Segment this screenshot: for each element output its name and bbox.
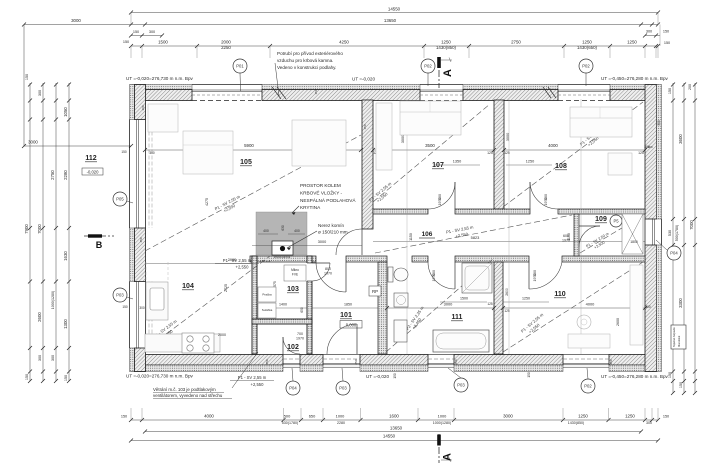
- svg-text:4250: 4250: [339, 40, 349, 45]
- svg-text:125: 125: [638, 151, 644, 155]
- svg-text:+TV + A: +TV + A: [260, 259, 271, 263]
- svg-text:500(1780): 500(1780): [675, 225, 679, 241]
- svg-text:7000: 7000: [37, 224, 42, 234]
- svg-text:1800: 1800: [630, 240, 638, 244]
- svg-text:1000(1280): 1000(1280): [51, 291, 55, 309]
- svg-text:2280: 2280: [63, 170, 68, 180]
- svg-text:P04: P04: [670, 251, 678, 256]
- svg-text:NESPÁLNÁ PODLAHOVÁ: NESPÁLNÁ PODLAHOVÁ: [300, 197, 356, 203]
- svg-text:3000: 3000: [506, 133, 510, 141]
- svg-text:A: A: [442, 69, 454, 77]
- svg-text:1500: 1500: [460, 297, 468, 301]
- svg-text:P05: P05: [116, 197, 124, 202]
- svg-text:2000: 2000: [218, 333, 226, 337]
- svg-text:1000(1280): 1000(1280): [433, 421, 451, 425]
- svg-text:650: 650: [309, 414, 316, 419]
- svg-text:1150: 1150: [409, 233, 413, 241]
- svg-text:300: 300: [149, 30, 155, 34]
- svg-text:700: 700: [297, 332, 303, 336]
- svg-text:ø 150/210 mm: ø 150/210 mm: [318, 230, 348, 235]
- svg-text:Sušička: Sušička: [262, 308, 273, 312]
- svg-text:UT =-0,020=276,730 m n.m. Bpv: UT =-0,020=276,730 m n.m. Bpv: [126, 374, 194, 379]
- svg-text:vzduchu pro krbová kamna.: vzduchu pro krbová kamna.: [277, 58, 333, 63]
- svg-text:Nerez komín: Nerez komín: [318, 223, 344, 228]
- svg-text:2000: 2000: [221, 40, 231, 45]
- svg-text:krbová kamna: krbová kamna: [274, 255, 291, 259]
- svg-text:112: 112: [85, 155, 96, 162]
- svg-text:105: 105: [240, 159, 252, 166]
- svg-text:1430(850): 1430(850): [568, 421, 584, 425]
- svg-text:P03: P03: [116, 293, 124, 298]
- svg-text:400: 400: [263, 229, 269, 233]
- svg-text:2725: 2725: [224, 284, 228, 292]
- svg-text:Větrání m.č. 103 je podtlakový: Větrání m.č. 103 je podtlakovým: [153, 387, 216, 392]
- svg-text:125: 125: [487, 302, 493, 306]
- svg-text:UT =-0,020: UT =-0,020: [352, 77, 375, 82]
- svg-text:1050: 1050: [63, 107, 68, 117]
- svg-text:B: B: [96, 240, 103, 250]
- svg-text:1250: 1250: [441, 40, 451, 45]
- svg-text:14550: 14550: [383, 434, 396, 439]
- svg-text:150: 150: [668, 372, 672, 378]
- svg-text:108: 108: [555, 163, 567, 170]
- svg-text:150: 150: [393, 373, 397, 379]
- svg-text:150: 150: [679, 382, 683, 388]
- svg-text:1970: 1970: [438, 198, 442, 206]
- svg-text:400: 400: [294, 229, 300, 233]
- svg-text:600: 600: [563, 234, 569, 238]
- svg-text:4000: 4000: [204, 414, 214, 419]
- svg-text:P1 - SV 2,55 m: P1 - SV 2,55 m: [238, 375, 267, 380]
- svg-text:1430(650): 1430(650): [577, 45, 598, 50]
- svg-text:450: 450: [454, 359, 458, 364]
- svg-text:3600: 3600: [678, 134, 683, 144]
- svg-text:5900: 5900: [244, 143, 254, 148]
- svg-text:1970: 1970: [296, 337, 304, 341]
- svg-text:KRBOVÉ VLOŽKY -: KRBOVÉ VLOŽKY -: [300, 188, 343, 195]
- svg-text:150: 150: [664, 41, 670, 45]
- svg-text:104: 104: [182, 283, 194, 290]
- svg-text:450: 450: [354, 359, 358, 364]
- svg-text:103: 103: [287, 286, 299, 293]
- svg-text:13650: 13650: [384, 18, 397, 23]
- svg-text:300: 300: [657, 120, 661, 126]
- svg-text:530: 530: [668, 230, 672, 236]
- svg-text:1970: 1970: [544, 198, 548, 206]
- svg-text:RP: RP: [372, 289, 378, 294]
- svg-text:150: 150: [663, 415, 669, 419]
- svg-text:UT =-0,020: UT =-0,020: [366, 374, 389, 379]
- svg-text:150: 150: [123, 40, 129, 44]
- svg-text:150: 150: [122, 305, 128, 309]
- svg-text:7900: 7900: [24, 224, 29, 234]
- svg-text:13650: 13650: [390, 426, 403, 431]
- svg-text:2750: 2750: [511, 40, 521, 45]
- svg-text:300: 300: [51, 355, 55, 361]
- svg-text:300: 300: [646, 421, 652, 425]
- svg-text:300: 300: [141, 105, 145, 110]
- svg-text:1400: 1400: [279, 303, 287, 307]
- svg-text:106: 106: [422, 231, 433, 238]
- svg-text:1000: 1000: [336, 414, 345, 419]
- svg-text:1970: 1970: [533, 274, 537, 282]
- svg-text:2900: 2900: [228, 258, 236, 262]
- svg-text:200: 200: [688, 84, 692, 90]
- svg-text:3000: 3000: [503, 414, 513, 419]
- svg-text:150: 150: [668, 88, 672, 94]
- svg-text:300: 300: [139, 306, 145, 310]
- svg-text:630: 630: [281, 225, 285, 231]
- svg-text:14550: 14550: [388, 7, 401, 12]
- svg-text:+2,550: +2,550: [251, 382, 265, 387]
- svg-text:1600: 1600: [389, 414, 399, 419]
- svg-text:2280: 2280: [337, 421, 345, 425]
- svg-text:101: 101: [340, 312, 352, 319]
- svg-text:Vedeno v konstrukci podlahy.: Vedeno v konstrukci podlahy.: [277, 65, 336, 70]
- svg-text:530(1780): 530(1780): [282, 421, 298, 425]
- svg-text:PROSTOR KOLEM: PROSTOR KOLEM: [300, 183, 341, 188]
- svg-text:2600: 2600: [505, 288, 509, 296]
- svg-text:150: 150: [64, 375, 68, 381]
- svg-text:+2,550: +2,550: [236, 265, 250, 270]
- svg-text:1300: 1300: [63, 319, 68, 329]
- svg-text:4000: 4000: [548, 143, 558, 148]
- svg-text:2600: 2600: [616, 318, 620, 326]
- svg-text:1250: 1250: [627, 40, 637, 45]
- svg-text:Potrubí pro přívod exteriérové: Potrubí pro přívod exteriérového: [277, 51, 343, 56]
- svg-text:FVE: FVE: [292, 273, 298, 277]
- svg-text:800: 800: [325, 267, 331, 271]
- svg-text:150: 150: [25, 74, 29, 80]
- svg-text:2750: 2750: [50, 170, 55, 180]
- svg-text:4275: 4275: [205, 198, 209, 206]
- svg-text:3000: 3000: [71, 18, 81, 23]
- svg-text:150: 150: [363, 124, 367, 129]
- svg-text:P02: P02: [584, 384, 592, 389]
- svg-text:5823: 5823: [471, 235, 480, 240]
- svg-text:500: 500: [284, 414, 291, 419]
- svg-text:150: 150: [663, 30, 669, 34]
- svg-text:A: A: [442, 453, 454, 461]
- svg-text:UT =-0,450=276,280 m n.m. Bpv: UT =-0,450=276,280 m n.m. Bpv: [601, 374, 669, 379]
- svg-text:300: 300: [149, 151, 155, 155]
- svg-text:650: 650: [300, 307, 304, 313]
- svg-text:KRYTINA: KRYTINA: [300, 205, 321, 210]
- svg-text:UT =-0,020=276,730 m n.m. Bpv: UT =-0,020=276,730 m n.m. Bpv: [126, 76, 194, 81]
- svg-text:3000: 3000: [401, 135, 405, 143]
- svg-text:1970: 1970: [562, 239, 570, 243]
- svg-text:3500: 3500: [425, 143, 435, 148]
- svg-text:3000: 3000: [318, 240, 326, 244]
- svg-text:3300: 3300: [678, 298, 683, 308]
- svg-text:Tepelné čerpadlo: Tepelné čerpadlo: [672, 327, 676, 347]
- svg-text:1500: 1500: [158, 40, 168, 45]
- svg-text:P01: P01: [236, 64, 244, 69]
- svg-text:450: 450: [609, 359, 613, 364]
- svg-text:1250: 1250: [582, 40, 592, 45]
- svg-text:300: 300: [646, 30, 652, 34]
- svg-text:1630: 1630: [63, 251, 68, 261]
- svg-text:2600: 2600: [37, 312, 42, 322]
- svg-text:UT =-0,450=276,280 m n.m. Bpv: UT =-0,450=276,280 m n.m. Bpv: [601, 76, 669, 81]
- svg-text:P5: P5: [613, 219, 619, 224]
- svg-text:3000: 3000: [444, 302, 453, 307]
- svg-text:150: 150: [121, 150, 127, 154]
- svg-text:3000: 3000: [28, 140, 38, 145]
- svg-text:111: 111: [452, 314, 463, 321]
- svg-text:Pračka: Pračka: [262, 293, 272, 297]
- svg-text:0,000: 0,000: [346, 323, 357, 328]
- svg-text:150: 150: [133, 30, 139, 34]
- svg-text:P03: P03: [339, 386, 347, 391]
- svg-text:4000: 4000: [586, 302, 595, 307]
- svg-text:7000: 7000: [689, 220, 694, 230]
- svg-text:1250: 1250: [578, 414, 588, 419]
- svg-text:1250: 1250: [522, 297, 530, 301]
- svg-text:ventilátorem, vyvedeno nad stř: ventilátorem, vyvedeno nad střechu: [153, 393, 223, 398]
- svg-text:1430(850): 1430(850): [436, 45, 457, 50]
- svg-text:1250: 1250: [526, 160, 534, 164]
- svg-text:109: 109: [595, 216, 607, 223]
- svg-text:150: 150: [25, 374, 29, 380]
- svg-text:150: 150: [527, 372, 531, 378]
- svg-text:Monoblok: Monoblok: [677, 335, 681, 347]
- svg-text:125: 125: [487, 151, 493, 155]
- svg-text:150: 150: [121, 415, 127, 419]
- svg-text:P02: P02: [424, 64, 432, 69]
- svg-text:110: 110: [554, 291, 565, 298]
- svg-text:300: 300: [647, 145, 652, 149]
- svg-text:1000: 1000: [438, 414, 447, 419]
- svg-text:Mikro: Mikro: [291, 268, 299, 272]
- svg-text:1250: 1250: [625, 414, 635, 419]
- svg-text:1350: 1350: [453, 160, 461, 164]
- svg-text:300: 300: [38, 355, 42, 361]
- svg-text:107: 107: [432, 162, 444, 169]
- svg-text:450: 450: [265, 359, 269, 364]
- svg-text:2250: 2250: [221, 45, 231, 50]
- svg-text:450: 450: [139, 237, 143, 242]
- svg-text:P04: P04: [289, 386, 297, 391]
- svg-text:-0,020: -0,020: [87, 170, 100, 175]
- svg-text:1850: 1850: [344, 303, 352, 307]
- svg-text:P02: P02: [582, 64, 590, 69]
- svg-text:300: 300: [38, 90, 42, 96]
- svg-text:150: 150: [314, 89, 318, 94]
- svg-text:P03: P03: [457, 383, 465, 388]
